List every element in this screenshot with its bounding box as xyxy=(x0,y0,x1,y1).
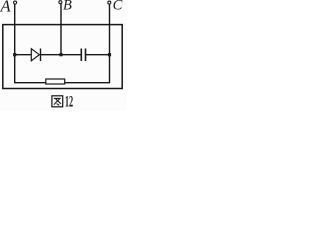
terminal C xyxy=(108,1,111,4)
black box enclosure xyxy=(3,25,122,89)
wire: middle wire, A junction to diode anode xyxy=(15,54,32,56)
wire: middle wire, capacitor right plate to C junction xyxy=(86,54,110,56)
caption: 图 glyph (drawn) xyxy=(52,96,63,107)
wire: middle wire, diode cathode to capacitor left plate xyxy=(41,54,82,56)
svg-text:C: C xyxy=(113,0,123,14)
svg-text:A: A xyxy=(0,0,12,16)
wire: lead from terminal A down to bottom wire xyxy=(14,4,16,83)
wire: lead from terminal C down to bottom wire xyxy=(109,4,111,83)
svg-text:12: 12 xyxy=(65,93,73,111)
svg-text:B: B xyxy=(63,0,72,14)
resistor R (rectangle) xyxy=(46,79,65,84)
wire: lead from terminal B down to middle wire xyxy=(60,4,62,55)
junction dot at C lead / middle wire xyxy=(108,53,111,56)
capacitor C (two plates) xyxy=(80,49,82,62)
diode D (anode left, cathode right) xyxy=(31,49,39,61)
wire: bottom wire, resistor to right corner xyxy=(65,82,110,84)
junction dot at A lead / middle wire xyxy=(13,53,16,56)
wire: bottom wire, left corner to resistor xyxy=(15,82,46,84)
junction dot at B lead / middle wire xyxy=(59,53,62,56)
terminal B xyxy=(59,1,62,4)
terminal A xyxy=(14,1,17,4)
